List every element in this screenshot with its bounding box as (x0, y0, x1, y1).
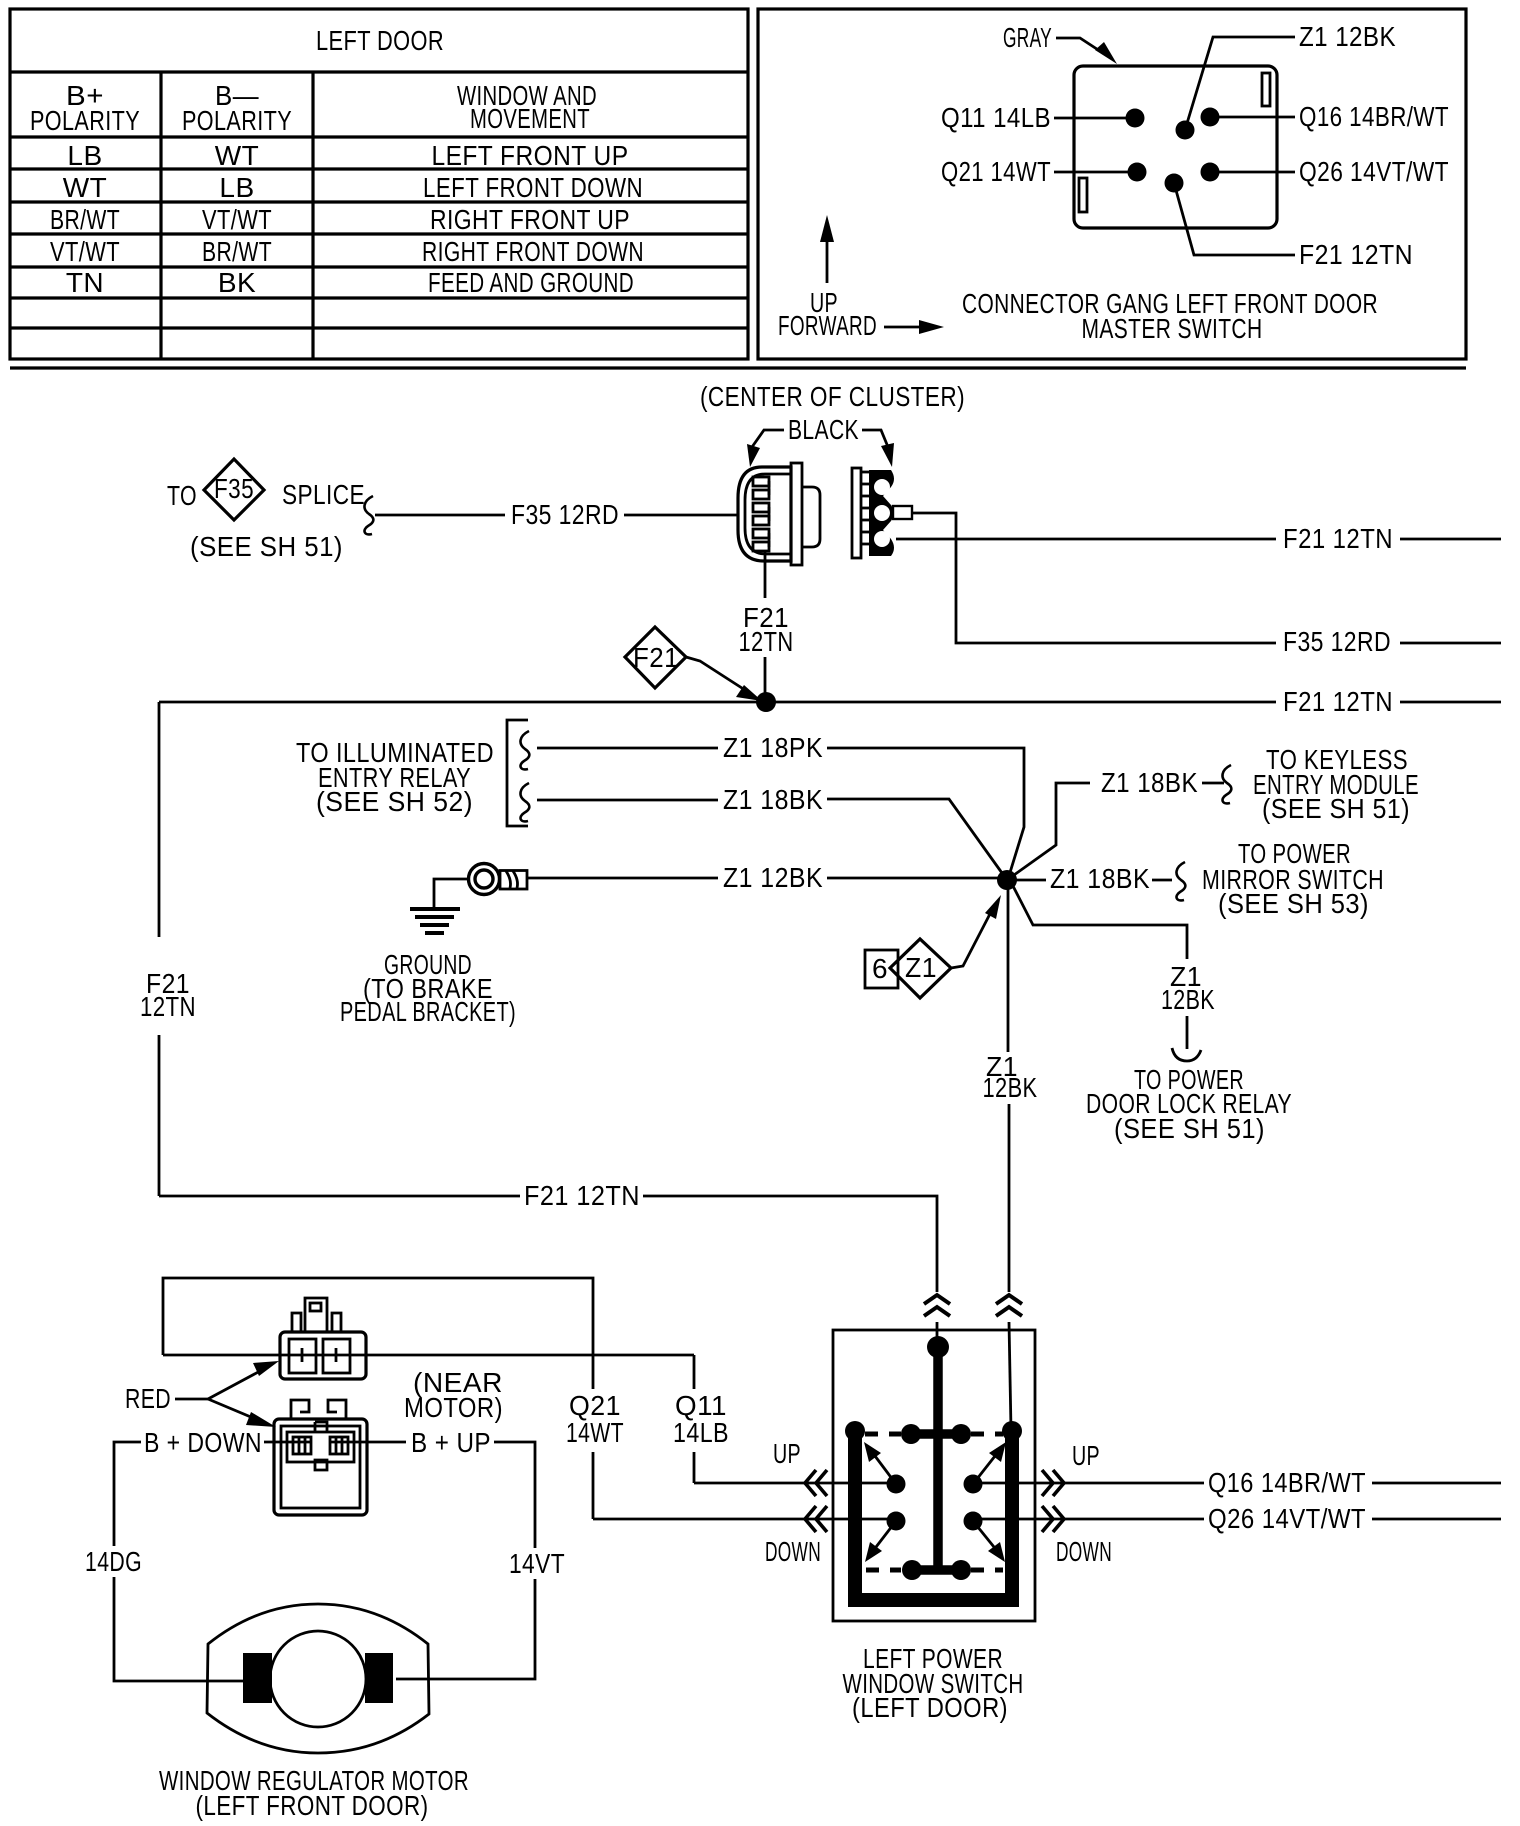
pin Q16 (1201, 101, 1450, 132)
junction hub Z1 (997, 870, 1017, 890)
label Q21 14WT (566, 1390, 624, 1448)
svg-text:(CENTER OF CLUSTER): (CENTER OF CLUSTER) (700, 381, 965, 412)
wire F21 12TN (left vertical) (140, 702, 196, 1196)
svg-text:TO: TO (167, 480, 197, 511)
svg-text:(LEFT FRONT DOOR): (LEFT FRONT DOOR) (196, 1790, 429, 1821)
ground symbol (410, 909, 460, 933)
pin Q11 (941, 102, 1145, 133)
wire Z1 12BK to power door lock relay (1013, 886, 1292, 1144)
wire B+UP (330, 1427, 535, 1548)
svg-text:VT/WT: VT/WT (50, 236, 120, 267)
connector half (male, center of cluster) (738, 463, 820, 565)
wire F21 12TN (upper right run) (896, 523, 1501, 554)
table LEFT DOOR frame (10, 9, 1466, 368)
connector (near motor, female half) (274, 1400, 367, 1515)
pin Z1 (1176, 21, 1397, 140)
svg-text:UP: UP (773, 1438, 801, 1469)
svg-text:FORWARD: FORWARD (778, 310, 877, 341)
svg-text:BR/WT: BR/WT (50, 204, 120, 235)
svg-text:UP: UP (1072, 1440, 1100, 1471)
switch box (833, 1330, 1035, 1621)
caption near motor (404, 1367, 503, 1423)
caption center of cluster (700, 381, 965, 412)
svg-text:(SEE SH 52): (SEE SH 52) (316, 786, 473, 817)
wire chevrons left (805, 1470, 1064, 1532)
label BLACK with two arrows (747, 414, 894, 467)
svg-text:(SEE SH 51): (SEE SH 51) (1114, 1113, 1265, 1144)
svg-text:BR/WT: BR/WT (202, 236, 272, 267)
table row lines (10, 72, 748, 328)
svg-text:(SEE SH 51): (SEE SH 51) (190, 531, 343, 562)
pin F21 (1165, 174, 1414, 271)
splice marker 6 Z1 (865, 895, 1001, 998)
svg-text:RIGHT FRONT DOWN: RIGHT FRONT DOWN (422, 236, 644, 267)
wire F21 12TN (main horizontal) (159, 686, 1501, 717)
connector (near motor, male half) (280, 1298, 366, 1379)
up arrow (810, 215, 838, 318)
svg-text:F21 12TN: F21 12TN (1283, 686, 1393, 717)
svg-text:SPLICE: SPLICE (282, 479, 365, 510)
ground ring terminal (434, 864, 527, 908)
svg-text:Q21 14WT: Q21 14WT (941, 156, 1051, 187)
svg-text:WT: WT (215, 140, 260, 171)
svg-text:DOWN: DOWN (1056, 1536, 1112, 1567)
svg-text:Z1: Z1 (905, 952, 937, 983)
svg-text:Q26 14VT/WT: Q26 14VT/WT (1299, 156, 1449, 187)
wire Q11 branch (163, 1355, 895, 1483)
splice F21 diamond (625, 627, 762, 701)
switch contact bars (845, 1336, 1022, 1600)
wire Z1 12BK to hub (527, 862, 998, 893)
window regulator motor (207, 1604, 429, 1753)
wire B+DOWN (114, 1427, 312, 1546)
label RED with arrows (125, 1361, 279, 1427)
bracket to illuminated entry relay (296, 720, 529, 826)
switch contacts and arrows (864, 1442, 1006, 1562)
svg-text:MOVEMENT: MOVEMENT (470, 103, 590, 134)
svg-text:GRAY: GRAY (1003, 22, 1052, 53)
table column dividers (161, 72, 313, 359)
svg-text:F35 12RD: F35 12RD (511, 499, 619, 530)
svg-text:(SEE SH 51): (SEE SH 51) (1262, 793, 1410, 824)
splice F35 reference (167, 459, 373, 562)
wire Q26 14VT/WT (975, 1503, 1501, 1534)
svg-text:PEDAL BRACKET): PEDAL BRACKET) (340, 996, 516, 1027)
svg-text:14WT: 14WT (566, 1417, 624, 1448)
connector gang body (1074, 66, 1277, 228)
caption window regulator motor (159, 1765, 469, 1821)
wire Z1 12BK (vertical to switch) (983, 888, 1038, 1430)
wire loop to window switch (163, 1278, 895, 1519)
caption connector gang (962, 288, 1378, 344)
svg-text:LB: LB (67, 140, 102, 171)
svg-text:FEED AND GROUND: FEED AND GROUND (428, 267, 634, 298)
svg-text:LEFT FRONT UP: LEFT FRONT UP (432, 140, 629, 171)
svg-text:POLARITY: POLARITY (182, 105, 292, 136)
svg-text:12TN: 12TN (739, 626, 794, 657)
svg-text:F21 12TN: F21 12TN (1283, 523, 1393, 554)
label Q11 14LB (673, 1390, 729, 1448)
svg-text:Z1 18BK: Z1 18BK (723, 784, 823, 815)
wire Z1 18BK to keyless entry module (1007, 744, 1419, 880)
forward arrow (778, 310, 944, 341)
svg-text:Z1 12BK: Z1 12BK (1299, 21, 1396, 52)
svg-text:RED: RED (125, 1383, 171, 1414)
svg-text:B + UP: B + UP (411, 1427, 491, 1458)
svg-text:14VT: 14VT (509, 1548, 565, 1579)
label GRAY with arrow (1003, 22, 1117, 64)
svg-text:F21 12TN: F21 12TN (1299, 239, 1413, 270)
pin Q21 (941, 156, 1147, 187)
label F21 12TN under connector (739, 552, 794, 700)
svg-text:MASTER SWITCH: MASTER SWITCH (1082, 313, 1263, 344)
wire Z1 18BK (upper) (537, 784, 1007, 880)
svg-text:12TN: 12TN (140, 991, 196, 1022)
svg-text:Z1 18BK: Z1 18BK (1101, 767, 1198, 798)
connector box frame (758, 9, 1466, 359)
svg-text:LB: LB (219, 172, 254, 203)
svg-text:(SEE SH 53): (SEE SH 53) (1218, 888, 1369, 919)
svg-text:LEFT FRONT DOWN: LEFT FRONT DOWN (423, 172, 643, 203)
svg-text:RIGHT FRONT UP: RIGHT FRONT UP (430, 204, 630, 235)
label 14VT (396, 1548, 565, 1679)
svg-text:WT: WT (63, 172, 108, 203)
svg-text:TN: TN (66, 267, 104, 298)
svg-text:Z1 18PK: Z1 18PK (723, 732, 823, 763)
svg-text:(LEFT DOOR): (LEFT DOOR) (852, 1692, 1008, 1723)
wire F35 12RD to connector (375, 499, 738, 530)
svg-text:12BK: 12BK (983, 1072, 1038, 1103)
pin Q26 (1201, 156, 1450, 187)
svg-text:POLARITY: POLARITY (30, 105, 140, 136)
svg-text:F35: F35 (214, 473, 254, 504)
svg-text:Q16 14BR/WT: Q16 14BR/WT (1299, 101, 1449, 132)
svg-text:F21: F21 (633, 642, 679, 673)
connector half (female, center of cluster) (852, 468, 912, 558)
caption ground (340, 949, 516, 1027)
svg-text:Q26 14VT/WT: Q26 14VT/WT (1208, 1503, 1366, 1534)
junction F21 (756, 692, 776, 712)
svg-text:14DG: 14DG (85, 1546, 142, 1577)
labels UP DOWN (765, 1438, 1112, 1567)
svg-text:LEFT DOOR: LEFT DOOR (316, 25, 444, 56)
svg-text:Z1 12BK: Z1 12BK (723, 862, 823, 893)
svg-text:VT/WT: VT/WT (202, 204, 272, 235)
wire F21 12TN (lower horizontal) (159, 1180, 950, 1352)
wire Z1 18BK to power mirror switch (1016, 838, 1384, 919)
svg-text:F21 12TN: F21 12TN (524, 1180, 640, 1211)
svg-text:DOWN: DOWN (765, 1536, 821, 1567)
svg-text:BLACK: BLACK (788, 414, 859, 445)
wire Q16 14BR/WT (975, 1467, 1501, 1498)
svg-text:Q11 14LB: Q11 14LB (941, 102, 1051, 133)
svg-text:14LB: 14LB (673, 1417, 729, 1448)
svg-text:B + DOWN: B + DOWN (144, 1427, 262, 1458)
svg-text:12BK: 12BK (1161, 984, 1215, 1015)
svg-text:BK: BK (218, 267, 256, 298)
table texts (30, 25, 644, 298)
wire F35 12RD (right run) (912, 513, 1501, 657)
caption left power window switch (843, 1643, 1024, 1723)
svg-text:Z1 18BK: Z1 18BK (1050, 863, 1150, 894)
wire Z1 18PK (537, 732, 1024, 879)
svg-text:F35 12RD: F35 12RD (1283, 626, 1391, 657)
label 14DG (85, 1546, 246, 1681)
svg-text:MOTOR): MOTOR) (404, 1392, 503, 1423)
svg-text:Q16 14BR/WT: Q16 14BR/WT (1208, 1467, 1366, 1498)
switch dashed guides (865, 1434, 1003, 1570)
svg-text:6: 6 (872, 953, 888, 984)
